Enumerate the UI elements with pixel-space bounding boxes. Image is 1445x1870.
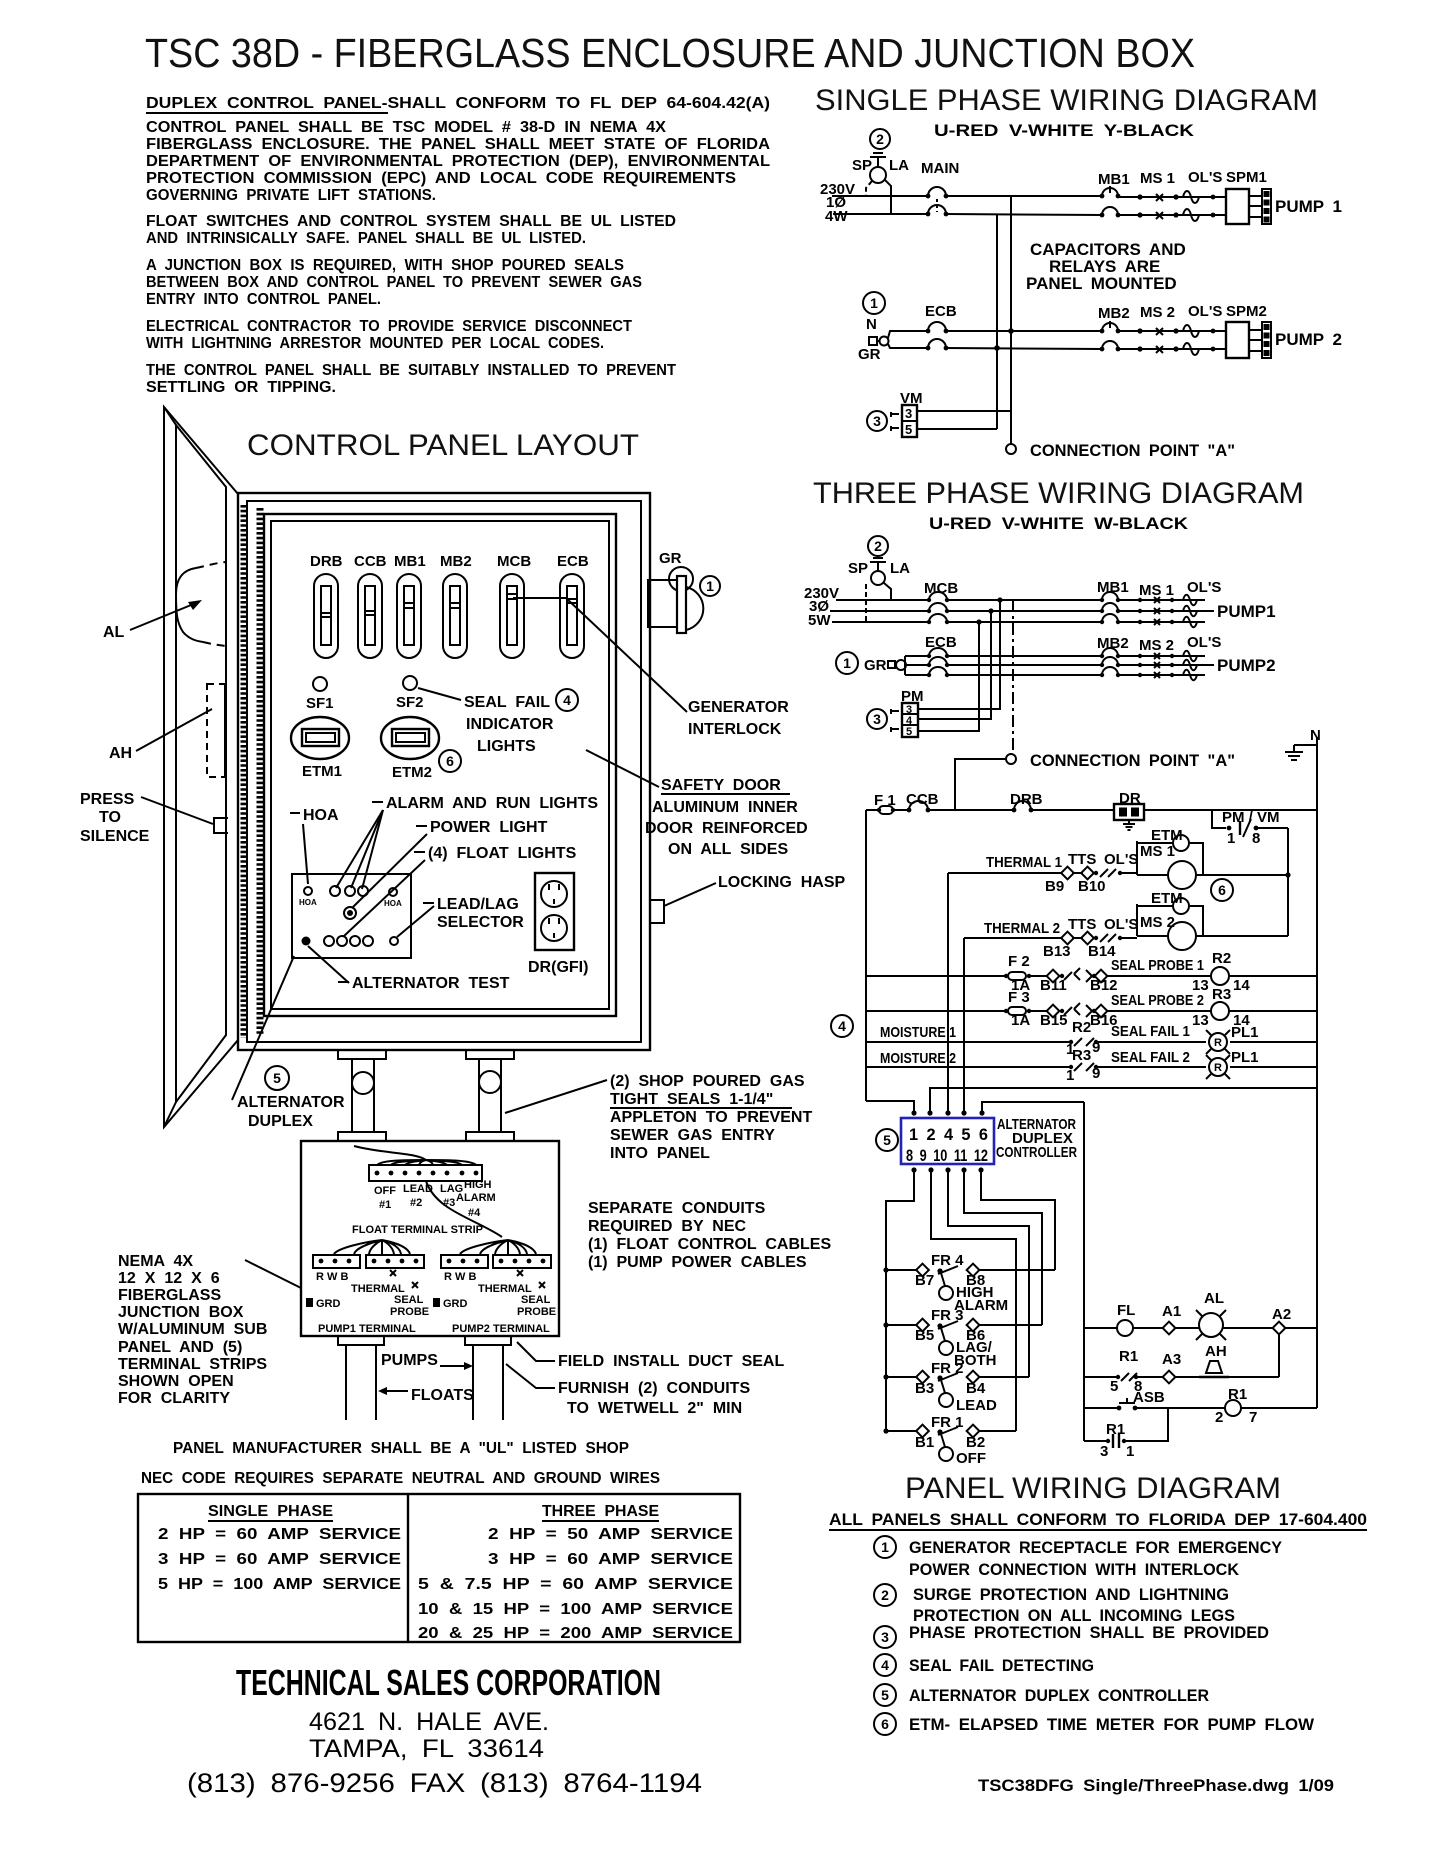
svg-text:F 3: F 3 xyxy=(1008,989,1030,1006)
svg-text:R3: R3 xyxy=(1212,986,1231,1003)
svg-text:ECB: ECB xyxy=(925,303,957,320)
svg-text:PL1: PL1 xyxy=(1231,1049,1259,1066)
wire terminal 5 riser xyxy=(963,938,965,1113)
vertical bus V1 xyxy=(996,214,998,429)
lamps float xyxy=(324,936,334,946)
svg-text:LIGHTS: LIGHTS xyxy=(477,738,536,755)
svg-text:SEAL: SEAL xyxy=(521,1294,551,1306)
meter ETM2 xyxy=(381,717,439,759)
svg-text:ALTERNATOR DUPLEX CONTROLLER: ALTERNATOR DUPLEX CONTROLLER xyxy=(909,1686,1209,1705)
note 5 alternator duplex xyxy=(874,1684,896,1706)
wire seal probe 1 row xyxy=(866,975,1006,977)
wire terminal 11 to FR3 xyxy=(964,1170,1042,1325)
panel enclosure outer xyxy=(238,493,650,1050)
breaker slot DRB xyxy=(314,574,338,658)
svg-text:8 9 10 11 12: 8 9 10 11 12 xyxy=(906,1146,988,1165)
svg-text:PM / VM: PM / VM xyxy=(1222,809,1280,826)
svg-text:ALTERNATOR: ALTERNATOR xyxy=(237,1094,345,1111)
svg-text:ON ALL SIDES: ON ALL SIDES xyxy=(668,841,788,858)
svg-text:8: 8 xyxy=(1252,830,1260,847)
svg-text:LA: LA xyxy=(889,157,909,174)
svg-text:MOISTURE 2: MOISTURE 2 xyxy=(880,1050,956,1067)
svg-text:SEPARATE CONDUITS: SEPARATE CONDUITS xyxy=(588,1200,766,1217)
svg-text:4621 N. HALE AVE.: 4621 N. HALE AVE. xyxy=(309,1708,549,1736)
svg-text:CONTROL PANEL LAYOUT: CONTROL PANEL LAYOUT xyxy=(247,429,639,462)
svg-text:PANEL AND (5): PANEL AND (5) xyxy=(118,1339,242,1356)
svg-text:GR: GR xyxy=(858,346,881,363)
wire pump1 fan xyxy=(334,1240,410,1254)
svg-text:CONTROL PANEL SHALL BE TSC MOD: CONTROL PANEL SHALL BE TSC MODEL # 38-D … xyxy=(146,119,666,136)
svg-text:7: 7 xyxy=(1249,1409,1257,1426)
breaker slot MCB xyxy=(500,574,524,658)
svg-text:ETM2: ETM2 xyxy=(392,764,432,781)
svg-text:ENTRY INTO CONTROL PANEL.: ENTRY INTO CONTROL PANEL. xyxy=(146,291,381,308)
svg-text:5W: 5W xyxy=(808,612,831,629)
svg-text:PRESS: PRESS xyxy=(80,791,135,808)
svg-text:B1: B1 xyxy=(915,1434,934,1451)
wire PM-3 tap xyxy=(918,600,1000,709)
lamp PL1 (seal fail 2) xyxy=(1209,1058,1227,1076)
svg-text:ALL PANELS SHALL CONFORM TO FL: ALL PANELS SHALL CONFORM TO FLORIDA DEP … xyxy=(829,1510,1367,1529)
svg-text:TO: TO xyxy=(99,809,121,826)
svg-text:ALUMINUM INNER: ALUMINUM INNER xyxy=(652,799,798,816)
svg-text:SURGE PROTECTION AND LIGHTNING: SURGE PROTECTION AND LIGHTNING xyxy=(913,1585,1229,1604)
svg-text:MB1: MB1 xyxy=(1098,171,1130,188)
leader seal fail lights xyxy=(418,688,461,700)
svg-text:THE CONTROL PANEL SHALL BE SUI: THE CONTROL PANEL SHALL BE SUITABLY INST… xyxy=(146,362,676,379)
svg-text:SINGLE PHASE WIRING DIAGRAM: SINGLE PHASE WIRING DIAGRAM xyxy=(815,84,1318,117)
svg-text:GRD: GRD xyxy=(316,1298,341,1310)
svg-text:MOISTURE 1: MOISTURE 1 xyxy=(880,1024,956,1041)
svg-text:14: 14 xyxy=(1233,977,1250,994)
svg-text:OL'S: OL'S xyxy=(1187,634,1221,651)
svg-text:FLOAT TERMINAL STRIP: FLOAT TERMINAL STRIP xyxy=(352,1224,483,1236)
svg-text:B2: B2 xyxy=(966,1434,985,1451)
svg-text:W/ALUMINUM SUB: W/ALUMINUM SUB xyxy=(118,1321,267,1338)
conduit pipe 2 xyxy=(478,1059,480,1132)
union seal 1 xyxy=(352,1072,374,1094)
lamps alarm/run xyxy=(330,886,340,896)
svg-text:SEAL FAIL: SEAL FAIL xyxy=(464,694,550,711)
terminal dots below controller xyxy=(911,1167,916,1172)
svg-text:U-RED V-WHITE W-BLACK: U-RED V-WHITE W-BLACK xyxy=(929,514,1189,533)
svg-text:INDICATOR: INDICATOR xyxy=(466,716,554,733)
svg-text:SF2: SF2 xyxy=(396,694,424,711)
svg-text:3 HP = 60 AMP SERVICE: 3 HP = 60 AMP SERVICE xyxy=(158,1551,401,1568)
svg-text:1: 1 xyxy=(870,295,878,311)
svg-text:6: 6 xyxy=(1218,882,1226,898)
svg-text:(813) 876-9256 FAX (813) 8764-: (813) 876-9256 FAX (813) 8764-1194 xyxy=(187,1768,702,1798)
svg-text:PANEL MOUNTED: PANEL MOUNTED xyxy=(1026,274,1177,293)
svg-text:A3: A3 xyxy=(1162,1351,1181,1368)
svg-text:2: 2 xyxy=(874,538,882,554)
note 3 phase protection xyxy=(874,1626,896,1648)
svg-text:SF1: SF1 xyxy=(306,695,334,712)
wire VM-3 to bus V2 xyxy=(917,410,1011,412)
note 2 surge protection xyxy=(874,1584,896,1606)
breaker slot ECB xyxy=(560,574,584,658)
svg-text:PUMP1 TERMINAL: PUMP1 TERMINAL xyxy=(318,1323,416,1335)
wire PM-5 tap xyxy=(918,622,979,731)
svg-text:FLOAT SWITCHES AND CONTROL SYS: FLOAT SWITCHES AND CONTROL SYSTEM SHALL … xyxy=(146,213,676,230)
svg-text:PUMP1: PUMP1 xyxy=(1217,602,1276,621)
svg-text:B10: B10 xyxy=(1078,878,1106,895)
svg-text:FR 3: FR 3 xyxy=(931,1307,964,1324)
leader alternator duplex to plate xyxy=(232,956,294,1100)
svg-text:B3: B3 xyxy=(915,1380,934,1397)
svg-text:TTS: TTS xyxy=(1068,916,1096,933)
note 1 generator receptacle xyxy=(874,1536,896,1558)
node connection point A (three phase) xyxy=(1006,754,1016,764)
svg-text:THERMAL 1: THERMAL 1 xyxy=(986,854,1062,871)
svg-text:PANEL MANUFACTURER SHALL BE A: PANEL MANUFACTURER SHALL BE A "UL" LISTE… xyxy=(173,1440,629,1457)
svg-text:TERMINAL STRIPS: TERMINAL STRIPS xyxy=(118,1356,267,1373)
receptacle DR(GFI) xyxy=(535,873,574,950)
conduit pipe 1 xyxy=(351,1059,353,1132)
note circle 5 (layout) xyxy=(265,1066,289,1090)
svg-text:GR: GR xyxy=(659,550,682,567)
svg-text:SETTLING OR TIPPING.: SETTLING OR TIPPING. xyxy=(146,379,336,396)
label PUMP2 xyxy=(1205,664,1214,666)
svg-text:TSC38DFG Single/ThreePhase.dw: TSC38DFG Single/ThreePhase.dwg 1/09 xyxy=(978,1776,1334,1795)
svg-text:FIBERGLASS ENCLOSURE. THE PANE: FIBERGLASS ENCLOSURE. THE PANEL SHALL ME… xyxy=(146,136,770,153)
terminal strip pump2 power xyxy=(441,1255,488,1268)
svg-text:LEAD: LEAD xyxy=(956,1397,997,1414)
switch lead/lag xyxy=(390,937,398,945)
wire PM-4 tap xyxy=(918,611,991,719)
svg-text:ELECTRICAL CONTRACTOR TO PROVI: ELECTRICAL CONTRACTOR TO PROVIDE SERVICE… xyxy=(146,318,632,335)
svg-text:PUMP2 TERMINAL: PUMP2 TERMINAL xyxy=(452,1323,550,1335)
switch HOA pump1 xyxy=(304,887,312,895)
svg-text:FL: FL xyxy=(1117,1302,1135,1319)
svg-text:HOA: HOA xyxy=(384,899,402,908)
pipes to wetwell xyxy=(345,1345,347,1420)
svg-text:9: 9 xyxy=(1092,1065,1100,1082)
svg-text:TSC 38D - FIBERGLASS ENCLOSURE: TSC 38D - FIBERGLASS ENCLOSURE AND JUNCT… xyxy=(145,30,1195,76)
wire SP dashed leg xyxy=(865,584,867,622)
svg-text:5: 5 xyxy=(1110,1378,1118,1395)
float terminal strip xyxy=(369,1165,482,1181)
leader safety door xyxy=(586,750,659,787)
wire control circuit top edge xyxy=(866,809,879,811)
svg-text:R: R xyxy=(1214,1062,1222,1074)
svg-text:PL1: PL1 xyxy=(1231,1024,1259,1041)
svg-text:2 HP = 50 AMP SERVICE: 2 HP = 50 AMP SERVICE xyxy=(488,1526,733,1543)
note circle 4 xyxy=(831,1015,853,1037)
svg-text:NEC CODE REQUIRES SEPARATE NEU: NEC CODE REQUIRES SEPARATE NEUTRAL AND G… xyxy=(141,1470,660,1487)
alternator duplex controller box xyxy=(901,1118,994,1164)
svg-text:5: 5 xyxy=(905,422,912,437)
note circle 1 xyxy=(863,292,885,314)
svg-text:A1: A1 xyxy=(1162,1303,1181,1320)
note circle 1 xyxy=(836,652,858,674)
svg-text:SHOWN OPEN: SHOWN OPEN xyxy=(118,1373,234,1390)
svg-text:HOA: HOA xyxy=(299,898,317,907)
svg-text:4: 4 xyxy=(881,1657,889,1673)
service table frame xyxy=(138,1494,740,1642)
svg-text:OL'S: OL'S xyxy=(1188,169,1222,186)
svg-text:SP: SP xyxy=(848,560,868,577)
svg-text:FR 1: FR 1 xyxy=(931,1414,964,1431)
svg-text:OL'S: OL'S xyxy=(1188,303,1222,320)
svg-text:SPM2: SPM2 xyxy=(1226,303,1267,320)
svg-text:THERMAL 2: THERMAL 2 xyxy=(984,920,1060,937)
svg-text:SPM1: SPM1 xyxy=(1226,169,1267,186)
svg-text:B9: B9 xyxy=(1045,878,1064,895)
pushbutton silence on door edge xyxy=(214,818,228,833)
svg-text:BETWEEN BOX AND CONTROL PANEL: BETWEEN BOX AND CONTROL PANEL TO PREVENT… xyxy=(146,274,642,291)
terminal strip pump2 sensors xyxy=(493,1255,551,1268)
svg-text:SELECTOR: SELECTOR xyxy=(437,914,524,931)
svg-text:OFF: OFF xyxy=(374,1185,396,1197)
svg-text:2: 2 xyxy=(881,1587,889,1603)
wire VM-5 to bus V1 xyxy=(917,428,997,430)
svg-text:CONTROLLER: CONTROLLER xyxy=(996,1144,1077,1161)
note circle 2 xyxy=(870,129,890,149)
ground lug pump1 xyxy=(306,1298,313,1307)
svg-text:DOOR REINFORCED: DOOR REINFORCED xyxy=(645,820,808,837)
svg-text:WITH LIGHTNING ARRESTOR MOUNTE: WITH LIGHTNING ARRESTOR MOUNTED PER LOCA… xyxy=(146,335,604,352)
svg-text:U-RED V-WHITE Y-BLACK: U-RED V-WHITE Y-BLACK xyxy=(934,121,1195,140)
svg-text:N: N xyxy=(866,316,877,333)
svg-text:2: 2 xyxy=(876,131,884,147)
svg-text:B11: B11 xyxy=(1040,977,1067,994)
svg-text:POWER LIGHT: POWER LIGHT xyxy=(430,819,548,836)
wire LA leg to L2 xyxy=(885,180,891,214)
svg-text:3: 3 xyxy=(873,711,881,727)
svg-text:FR 4: FR 4 xyxy=(931,1252,964,1269)
svg-text:MAIN: MAIN xyxy=(921,160,959,177)
svg-text:PUMPS: PUMPS xyxy=(381,1352,438,1369)
svg-text:NEMA 4X: NEMA 4X xyxy=(118,1253,193,1270)
ground lug pump2 xyxy=(433,1298,440,1307)
svg-text:ASB: ASB xyxy=(1133,1389,1165,1406)
svg-text:AH: AH xyxy=(109,745,132,762)
junction dots on buses xyxy=(1008,328,1014,334)
svg-text:OL'S: OL'S xyxy=(1104,916,1138,933)
switch HOA pump2 xyxy=(389,888,397,896)
svg-text:MS 1: MS 1 xyxy=(1140,170,1175,187)
svg-text:MB2: MB2 xyxy=(440,553,472,570)
svg-text:5: 5 xyxy=(883,1132,891,1148)
wire L2 xyxy=(833,213,928,215)
svg-text:LOCKING HASP: LOCKING HASP xyxy=(718,874,846,891)
breaker slot MB2 xyxy=(443,574,467,658)
svg-text:PROBE: PROBE xyxy=(390,1306,429,1318)
svg-text:3: 3 xyxy=(881,1629,889,1645)
note circle 5 xyxy=(876,1129,898,1151)
panel enclosure inner flange xyxy=(247,501,641,1042)
svg-text:FIELD INSTALL DUCT SEAL: FIELD INSTALL DUCT SEAL xyxy=(558,1353,784,1370)
wire neutral bus xyxy=(1316,745,1318,1408)
svg-text:10 & 15 HP = 100 AMP SERVICE: 10 & 15 HP = 100 AMP SERVICE xyxy=(418,1601,733,1618)
svg-text:MS 2: MS 2 xyxy=(1139,637,1174,654)
svg-text:DUPLEX CONTROL PANEL-SHALL CON: DUPLEX CONTROL PANEL-SHALL CONFORM TO FL… xyxy=(146,95,770,112)
svg-text:(1) FLOAT CONTROL CABLES: (1) FLOAT CONTROL CABLES xyxy=(588,1236,831,1253)
svg-text:SEAL FAIL DETECTING: SEAL FAIL DETECTING xyxy=(909,1656,1094,1675)
svg-text:5 & 7.5 HP = 60 AMP SERVICE: 5 & 7.5 HP = 60 AMP SERVICE xyxy=(418,1576,733,1593)
svg-text:DR(GFI): DR(GFI) xyxy=(528,959,588,976)
svg-text:FLOATS: FLOATS xyxy=(411,1387,474,1404)
svg-text:PROTECTION COMMISSION (EPC) AN: PROTECTION COMMISSION (EPC) AND LOCAL CO… xyxy=(146,170,736,187)
svg-text:MS 1: MS 1 xyxy=(1139,582,1174,599)
svg-text:A2: A2 xyxy=(1272,1306,1291,1323)
svg-text:MS 1: MS 1 xyxy=(1140,843,1175,860)
svg-text:TIGHT SEALS 1-1/4": TIGHT SEALS 1-1/4" xyxy=(610,1091,773,1108)
vertical bus V2 xyxy=(1010,196,1012,444)
svg-text:HIGH: HIGH xyxy=(464,1179,492,1191)
svg-text:5: 5 xyxy=(273,1070,281,1086)
svg-text:REQUIRED BY NEC: REQUIRED BY NEC xyxy=(588,1218,747,1235)
svg-text:OFF: OFF xyxy=(956,1450,986,1467)
wire terminal 12 to FR4 xyxy=(981,1170,1055,1270)
note circle 1 (layout) xyxy=(700,576,720,596)
wire phase B xyxy=(830,610,929,612)
svg-text:12 X 12 X 6: 12 X 12 X 6 xyxy=(118,1270,220,1287)
svg-text:4: 4 xyxy=(838,1018,846,1034)
wire terminal 8 to FR bus xyxy=(886,1170,914,1431)
svg-text:AH: AH xyxy=(1205,1343,1227,1360)
wire phase C xyxy=(832,621,929,623)
svg-text:2: 2 xyxy=(1215,1409,1223,1426)
svg-text:6: 6 xyxy=(446,753,454,769)
svg-text:THREE PHASE: THREE PHASE xyxy=(542,1503,659,1520)
breaker slot CCB xyxy=(358,574,382,658)
svg-text:B7: B7 xyxy=(915,1272,934,1289)
terminal strip pump1 power xyxy=(313,1255,360,1268)
wire pump2 fan xyxy=(460,1240,536,1254)
lamp SF2 xyxy=(403,676,417,690)
svg-text:PROBE: PROBE xyxy=(517,1306,556,1318)
wire float cable entry xyxy=(354,1146,426,1160)
svg-text:R: R xyxy=(1214,1037,1222,1049)
svg-text:B4: B4 xyxy=(966,1380,986,1397)
alarm light AL on door xyxy=(176,568,203,642)
wire SP leg to L1 xyxy=(866,181,872,196)
svg-text:FURNISH (2) CONDUITS: FURNISH (2) CONDUITS xyxy=(558,1380,750,1397)
svg-text:SINGLE PHASE: SINGLE PHASE xyxy=(208,1503,333,1520)
svg-text:MS 2: MS 2 xyxy=(1140,304,1175,321)
svg-text:3: 3 xyxy=(1100,1443,1108,1460)
svg-text:MB2: MB2 xyxy=(1098,305,1130,322)
svg-text:5 HP = 100 AMP SERVICE: 5 HP = 100 AMP SERVICE xyxy=(158,1576,401,1593)
svg-text:R1: R1 xyxy=(1119,1348,1138,1365)
svg-text:3 HP = 60 AMP SERVICE: 3 HP = 60 AMP SERVICE xyxy=(488,1551,733,1568)
svg-text:R W B: R W B xyxy=(444,1271,476,1283)
svg-text:AND INTRINSICALLY SAFE. PANEL: AND INTRINSICALLY SAFE. PANEL SHALL BE U… xyxy=(146,230,586,247)
wire terminal 9 to FR1 xyxy=(931,1170,1016,1431)
svg-text:2 HP = 60 AMP SERVICE: 2 HP = 60 AMP SERVICE xyxy=(158,1526,401,1543)
svg-text:TO WETWELL 2" MIN: TO WETWELL 2" MIN xyxy=(567,1400,742,1417)
svg-text:AL: AL xyxy=(103,624,125,641)
svg-text:OL'S: OL'S xyxy=(1104,851,1138,868)
svg-text:B15: B15 xyxy=(1040,1012,1068,1029)
contact OL'S aux 2 xyxy=(1094,936,1098,940)
svg-text:(1) PUMP POWER CABLES: (1) PUMP POWER CABLES xyxy=(588,1254,807,1271)
svg-text:MCB: MCB xyxy=(924,580,958,597)
wire terminal 6 riser xyxy=(982,1102,1084,1113)
hinge strip xyxy=(241,505,248,1038)
svg-text:HOA: HOA xyxy=(303,807,339,824)
svg-text:1: 1 xyxy=(706,578,714,594)
note circle 2 xyxy=(868,536,888,556)
svg-text:1: 1 xyxy=(881,1539,889,1555)
svg-text:5: 5 xyxy=(881,1687,889,1703)
label PUMP1 xyxy=(1205,610,1214,612)
contact B15 B16 xyxy=(1047,1005,1060,1018)
svg-text:LEAD/LAG: LEAD/LAG xyxy=(437,896,519,913)
svg-text:FOR CLARITY: FOR CLARITY xyxy=(118,1390,230,1407)
svg-text:R2: R2 xyxy=(1212,950,1231,967)
hasp xyxy=(650,900,664,923)
svg-text:SEAL FAIL 2: SEAL FAIL 2 xyxy=(1111,1049,1190,1066)
svg-text:R W B: R W B xyxy=(316,1271,348,1283)
wire MS return bus xyxy=(1287,828,1289,936)
svg-text:SEAL PROBE 2: SEAL PROBE 2 xyxy=(1111,992,1204,1009)
svg-text:1: 1 xyxy=(843,655,851,671)
wire bus to connection point A xyxy=(1012,600,1014,753)
enclosure door (open) xyxy=(164,407,238,1127)
svg-text:20 & 25 HP = 200 AMP SERVICE: 20 & 25 HP = 200 AMP SERVICE xyxy=(418,1625,733,1642)
meter ETM1 xyxy=(291,717,349,759)
wire float fan xyxy=(377,1160,476,1165)
wire control bus right of controller xyxy=(1083,1102,1085,1441)
svg-text:13: 13 xyxy=(1192,1012,1209,1029)
svg-text:MB1: MB1 xyxy=(394,553,426,570)
svg-text:DEPARTMENT OF ENVIRONMENTAL PR: DEPARTMENT OF ENVIRONMENTAL PROTECTION (… xyxy=(146,153,770,170)
note 4 seal fail xyxy=(874,1654,896,1676)
svg-text:B5: B5 xyxy=(915,1327,934,1344)
svg-text:SILENCE: SILENCE xyxy=(80,828,150,845)
wire terminal 4 riser xyxy=(947,873,949,1113)
svg-text:POWER CONNECTION WITH INTERLOC: POWER CONNECTION WITH INTERLOCK xyxy=(909,1560,1240,1579)
svg-text:SP: SP xyxy=(852,157,872,174)
svg-text:(2) SHOP POURED GAS: (2) SHOP POURED GAS xyxy=(610,1073,805,1090)
svg-text:OL'S: OL'S xyxy=(1187,579,1221,596)
svg-text:N: N xyxy=(1310,727,1321,744)
svg-text:INTERLOCK: INTERLOCK xyxy=(688,721,782,738)
svg-text:SEAL PROBE 1: SEAL PROBE 1 xyxy=(1111,957,1204,974)
svg-text:GENERATOR RECEPTACLE FOR EMERG: GENERATOR RECEPTACLE FOR EMERGENCY xyxy=(909,1538,1283,1557)
wire ECB feed xyxy=(888,331,928,338)
svg-text:FR 2: FR 2 xyxy=(931,1360,964,1377)
svg-text:GOVERNING PRIVATE LIFT STATION: GOVERNING PRIVATE LIFT STATIONS. xyxy=(146,187,436,204)
svg-text:DUPLEX: DUPLEX xyxy=(248,1113,313,1130)
note 6 ETM xyxy=(874,1713,896,1735)
svg-text:TAMPA, FL 33614: TAMPA, FL 33614 xyxy=(309,1735,544,1763)
svg-text:ETM- ELAPSED TIME METER FOR PU: ETM- ELAPSED TIME METER FOR PUMP FLOW xyxy=(909,1715,1315,1734)
svg-text:ETM1: ETM1 xyxy=(302,763,342,780)
svg-text:(4) FLOAT LIGHTS: (4) FLOAT LIGHTS xyxy=(428,845,577,862)
wire pump2 feed xyxy=(904,656,906,675)
svg-text:CCB: CCB xyxy=(354,553,387,570)
svg-text:CONNECTION POINT "A": CONNECTION POINT "A" xyxy=(1030,751,1235,770)
svg-text:R1: R1 xyxy=(1106,1421,1125,1438)
note circle 6 (layout) xyxy=(439,750,461,772)
leader generator interlock xyxy=(513,598,687,712)
svg-text:9: 9 xyxy=(1092,1039,1100,1056)
svg-text:SEWER GAS ENTRY: SEWER GAS ENTRY xyxy=(610,1127,775,1144)
svg-text:1: 1 xyxy=(1126,1443,1134,1460)
svg-text:#2: #2 xyxy=(410,1197,422,1209)
svg-text:LA: LA xyxy=(890,560,910,577)
svg-text:GR: GR xyxy=(864,657,887,674)
svg-text:MCB: MCB xyxy=(497,553,531,570)
svg-text:R3: R3 xyxy=(1072,1047,1091,1064)
svg-text:PHASE PROTECTION SHALL BE PROV: PHASE PROTECTION SHALL BE PROVIDED xyxy=(909,1623,1269,1642)
safety door rect xyxy=(264,514,616,1016)
contact B11 B12 xyxy=(1047,970,1060,983)
